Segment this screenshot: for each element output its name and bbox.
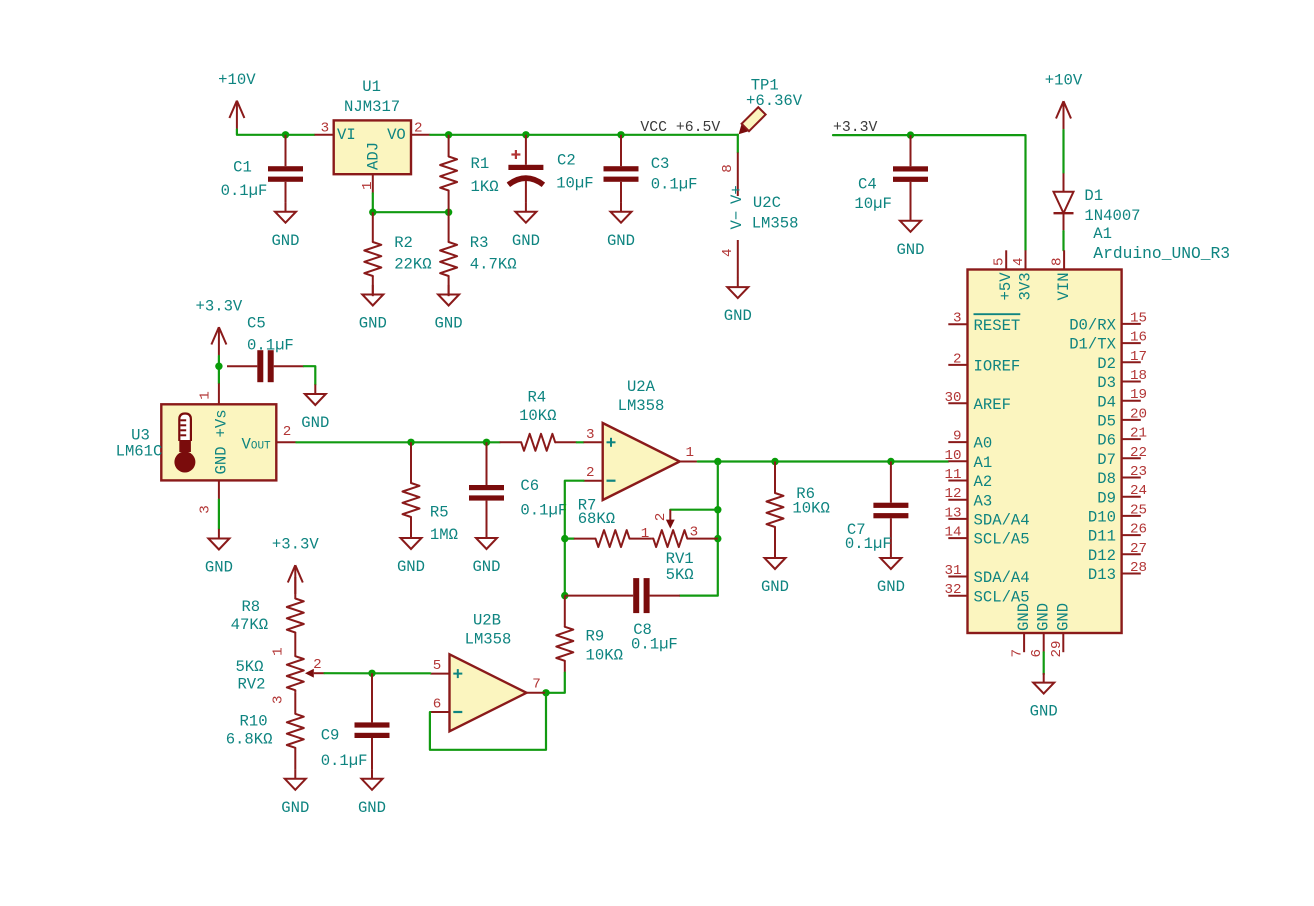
wire — [1043, 652, 1045, 674]
svg-text:D8: D8 — [1097, 470, 1116, 488]
svg-text:1N4007: 1N4007 — [1084, 207, 1140, 225]
wire — [680, 462, 718, 596]
svg-text:R5: R5 — [430, 504, 449, 522]
wire — [373, 211, 449, 213]
ground — [896, 211, 924, 259]
svg-text:7: 7 — [1010, 649, 1026, 658]
ground — [761, 548, 789, 596]
C7 labels — [845, 521, 892, 553]
ground — [271, 202, 299, 250]
svg-text:U2A: U2A — [627, 378, 656, 396]
svg-text:10: 10 — [944, 448, 961, 464]
svg-text:D13: D13 — [1088, 566, 1116, 584]
R8 labels — [231, 598, 268, 634]
svg-text:GND: GND — [724, 307, 752, 325]
svg-text:9: 9 — [953, 429, 962, 445]
svg-text:8: 8 — [720, 164, 736, 173]
svg-text:2: 2 — [953, 351, 962, 367]
junction — [714, 506, 721, 513]
net label VCC +6.5V — [640, 120, 720, 136]
svg-text:0.1µF: 0.1µF — [247, 337, 294, 355]
svg-text:22: 22 — [1130, 445, 1147, 461]
svg-text:RESET: RESET — [974, 317, 1021, 335]
svg-text:1: 1 — [271, 647, 287, 656]
op-amp U2C power pins — [720, 135, 746, 278]
U1 labels — [344, 78, 400, 116]
svg-text:GND: GND — [281, 799, 309, 817]
svg-text:AREF: AREF — [974, 396, 1011, 414]
svg-text:5: 5 — [433, 658, 442, 674]
diode D1 — [1054, 173, 1074, 231]
svg-text:2: 2 — [313, 657, 322, 673]
junction — [368, 670, 375, 677]
svg-text:+Vs: +Vs — [213, 409, 231, 437]
resistor R6 — [767, 462, 784, 549]
svg-text:SDA/A4: SDA/A4 — [974, 569, 1030, 587]
junction — [907, 131, 914, 138]
svg-text:R2: R2 — [394, 234, 413, 252]
resistor R8 — [287, 577, 304, 654]
power +10V — [218, 71, 256, 130]
svg-text:C4: C4 — [858, 176, 877, 194]
wire — [565, 537, 574, 539]
svg-text:D0/RX: D0/RX — [1069, 317, 1116, 335]
A1 labels — [1093, 225, 1230, 263]
svg-text:A0: A0 — [974, 435, 993, 453]
svg-text:20: 20 — [1130, 406, 1147, 422]
ground — [359, 285, 387, 333]
svg-text:LM358: LM358 — [752, 214, 799, 232]
svg-text:1KΩ: 1KΩ — [471, 178, 499, 196]
capacitor C4 — [893, 135, 928, 212]
svg-text:3: 3 — [690, 525, 699, 541]
RV1 labels — [666, 550, 694, 584]
resistor R4 — [500, 434, 577, 451]
test point TP1 — [735, 107, 766, 138]
svg-text:+3.3V: +3.3V — [833, 120, 878, 136]
svg-text:C9: C9 — [321, 726, 340, 744]
svg-text:GND: GND — [271, 232, 299, 250]
svg-text:+5V: +5V — [997, 272, 1015, 301]
svg-text:V−: V− — [728, 211, 746, 230]
svg-text:10KΩ: 10KΩ — [586, 646, 623, 664]
op-amp U2B — [430, 654, 545, 731]
junction — [369, 209, 376, 216]
svg-text:V+: V+ — [728, 185, 746, 204]
svg-text:29: 29 — [1049, 640, 1065, 657]
svg-text:GND: GND — [358, 799, 386, 817]
R6 labels — [792, 485, 829, 518]
svg-text:+10V: +10V — [1045, 72, 1083, 90]
regulator U1 NJM317 — [315, 120, 431, 193]
svg-text:19: 19 — [1130, 387, 1147, 403]
junction — [617, 131, 624, 138]
R1 labels — [471, 155, 499, 196]
ground — [358, 769, 386, 817]
svg-text:GND: GND — [301, 414, 329, 432]
wire — [670, 509, 718, 511]
svg-text:3: 3 — [198, 505, 214, 514]
svg-text:+3.3V: +3.3V — [196, 298, 243, 316]
junction — [445, 209, 452, 216]
svg-text:GND: GND — [512, 232, 540, 250]
sensor U3 LM61C — [161, 383, 296, 513]
wire — [218, 356, 220, 383]
svg-text:1: 1 — [641, 526, 650, 542]
svg-text:R1: R1 — [471, 155, 490, 173]
svg-text:7: 7 — [532, 676, 541, 692]
svg-text:+3.3V: +3.3V — [272, 536, 319, 554]
svg-text:12: 12 — [944, 486, 961, 502]
C3 labels — [651, 155, 698, 193]
junction — [561, 535, 568, 542]
wire — [218, 500, 220, 529]
svg-text:10µF: 10µF — [854, 195, 891, 213]
svg-text:8: 8 — [1050, 257, 1066, 266]
wire — [430, 134, 738, 136]
svg-text:10KΩ: 10KΩ — [792, 500, 829, 518]
svg-text:D12: D12 — [1088, 547, 1116, 565]
junction — [483, 439, 490, 446]
svg-text:+6.36V: +6.36V — [746, 92, 803, 110]
svg-text:GND: GND — [397, 558, 425, 576]
resistor R1 — [440, 135, 457, 212]
wire — [546, 673, 565, 693]
wire — [325, 672, 373, 674]
svg-text:16: 16 — [1130, 330, 1147, 346]
wire — [1062, 130, 1064, 173]
wire — [372, 193, 374, 212]
wire — [698, 460, 949, 462]
U2B labels — [465, 612, 512, 649]
svg-text:D7: D7 — [1097, 451, 1116, 469]
svg-text:D2: D2 — [1097, 355, 1116, 373]
power +3.3V — [272, 536, 319, 595]
svg-text:4: 4 — [720, 248, 736, 257]
resistor R7 — [574, 530, 651, 547]
wire — [372, 672, 430, 674]
resistor R2 — [364, 212, 381, 296]
svg-text:GND: GND — [213, 446, 231, 474]
svg-text:VI: VI — [337, 126, 356, 144]
svg-text:GND: GND — [359, 315, 387, 333]
U2A labels — [618, 378, 665, 415]
svg-text:GND: GND — [1030, 703, 1058, 721]
TP1 labels — [746, 77, 803, 111]
D1 labels — [1084, 187, 1140, 225]
resistor R5 — [403, 442, 420, 528]
svg-text:0.1µF: 0.1µF — [845, 535, 892, 553]
svg-text:VIN: VIN — [1055, 272, 1073, 300]
svg-text:GND: GND — [761, 578, 789, 596]
svg-text:Arduino_UNO_R3: Arduino_UNO_R3 — [1093, 244, 1230, 263]
wire — [296, 441, 499, 443]
U3 labels — [116, 426, 163, 460]
svg-text:31: 31 — [944, 563, 961, 579]
C9 labels — [321, 726, 368, 770]
svg-text:2: 2 — [283, 424, 292, 440]
svg-text:GND: GND — [896, 241, 924, 259]
svg-text:5KΩ: 5KΩ — [666, 566, 694, 584]
svg-text:GND: GND — [607, 232, 635, 250]
capacitor C7 — [873, 462, 908, 549]
svg-text:1: 1 — [360, 181, 376, 190]
wire — [833, 135, 1026, 250]
svg-text:IOREF: IOREF — [974, 358, 1021, 376]
junction — [887, 458, 894, 465]
svg-text:VCC +6.5V: VCC +6.5V — [640, 120, 720, 136]
svg-text:17: 17 — [1130, 349, 1147, 365]
svg-text:SDA/A4: SDA/A4 — [974, 512, 1030, 530]
U3 thermometer icon — [174, 414, 195, 473]
svg-text:C5: C5 — [247, 315, 266, 333]
C6 labels — [520, 477, 567, 520]
svg-text:R4: R4 — [527, 389, 546, 407]
ground — [472, 528, 500, 576]
ground — [397, 528, 425, 576]
ground — [1030, 673, 1058, 721]
junction — [445, 131, 452, 138]
capacitor C6 — [469, 442, 504, 528]
svg-text:+10V: +10V — [218, 71, 256, 89]
svg-text:10KΩ: 10KΩ — [519, 407, 556, 425]
svg-text:A2: A2 — [974, 473, 993, 491]
svg-text:28: 28 — [1130, 560, 1147, 576]
wire — [565, 481, 584, 596]
resistor R3 — [440, 212, 457, 296]
svg-text:D1: D1 — [1084, 187, 1103, 205]
svg-text:GND: GND — [205, 559, 233, 577]
svg-text:0.1µF: 0.1µF — [520, 502, 567, 520]
svg-text:11: 11 — [944, 467, 961, 483]
svg-text:A1: A1 — [1093, 225, 1112, 243]
junction — [522, 131, 529, 138]
junction — [561, 592, 568, 599]
junction — [714, 535, 721, 542]
R4 labels — [519, 389, 556, 426]
svg-text:13: 13 — [944, 505, 961, 521]
capacitor C3 — [604, 135, 639, 202]
svg-text:26: 26 — [1130, 522, 1147, 538]
ground — [435, 285, 463, 333]
svg-text:24: 24 — [1130, 483, 1147, 499]
RV2 labels — [235, 658, 265, 694]
svg-text:D11: D11 — [1088, 528, 1116, 546]
svg-text:21: 21 — [1130, 426, 1147, 442]
svg-text:D5: D5 — [1097, 413, 1116, 431]
svg-text:ADJ: ADJ — [365, 142, 383, 170]
svg-text:6.8KΩ: 6.8KΩ — [226, 730, 273, 748]
svg-text:GND: GND — [1035, 603, 1053, 631]
svg-text:6: 6 — [433, 697, 442, 713]
junction — [771, 458, 778, 465]
ground — [877, 548, 905, 596]
svg-text:GND: GND — [1054, 603, 1072, 631]
svg-text:C3: C3 — [651, 155, 670, 173]
svg-text:D3: D3 — [1097, 374, 1116, 392]
svg-text:GND: GND — [435, 315, 463, 333]
svg-text:68KΩ: 68KΩ — [578, 510, 615, 528]
ground — [724, 278, 752, 326]
junction — [542, 689, 549, 696]
potentiometer RV1 — [641, 510, 718, 547]
svg-text:0.1µF: 0.1µF — [631, 635, 678, 653]
svg-text:23: 23 — [1130, 464, 1147, 480]
junction — [282, 131, 289, 138]
svg-text:2: 2 — [414, 121, 423, 137]
C8 labels — [631, 621, 678, 653]
ground — [512, 202, 540, 250]
svg-text:2: 2 — [586, 465, 595, 481]
svg-text:4.7KΩ: 4.7KΩ — [470, 256, 517, 274]
svg-text:R3: R3 — [470, 234, 489, 252]
ground — [281, 769, 309, 817]
svg-text:GND: GND — [1015, 603, 1033, 631]
svg-text:R8: R8 — [241, 598, 260, 616]
wire — [577, 441, 584, 443]
svg-text:3: 3 — [321, 121, 330, 137]
svg-text:5: 5 — [992, 257, 1008, 266]
wire — [237, 130, 315, 135]
svg-text:U2B: U2B — [473, 612, 501, 630]
svg-text:32: 32 — [944, 582, 961, 598]
junction — [407, 439, 414, 446]
svg-text:R9: R9 — [586, 628, 605, 646]
svg-text:2: 2 — [653, 513, 669, 522]
svg-text:10µF: 10µF — [556, 175, 593, 193]
R7 labels — [578, 497, 615, 528]
resistor R10 — [287, 692, 304, 769]
svg-text:47KΩ: 47KΩ — [231, 616, 268, 634]
capacitor C8 — [565, 578, 680, 613]
svg-text:1: 1 — [198, 391, 214, 400]
capacitor C2 (polarized) — [508, 135, 543, 202]
wire — [304, 366, 315, 384]
svg-text:D6: D6 — [1097, 432, 1116, 450]
svg-text:0.1µF: 0.1µF — [321, 752, 368, 770]
svg-text:U3: U3 — [131, 426, 150, 444]
R3 labels — [470, 234, 517, 274]
svg-text:27: 27 — [1130, 541, 1147, 557]
R9 labels — [586, 628, 623, 665]
power +10V — [1045, 72, 1083, 131]
svg-text:C2: C2 — [557, 152, 576, 170]
wire — [1062, 231, 1064, 250]
svg-text:RV2: RV2 — [237, 675, 265, 693]
ground — [205, 529, 233, 577]
svg-text:GND: GND — [472, 558, 500, 576]
svg-text:U2C: U2C — [753, 194, 781, 212]
wire feedback — [430, 693, 546, 750]
svg-text:30: 30 — [944, 390, 961, 406]
junction — [215, 363, 222, 370]
svg-text:D9: D9 — [1097, 489, 1116, 507]
C1 value labels — [221, 159, 268, 201]
svg-text:3: 3 — [271, 695, 287, 704]
power +3.3V — [196, 298, 243, 357]
op-amp U2A — [584, 423, 699, 500]
svg-text:R10: R10 — [240, 713, 268, 731]
IC A1 Arduino_UNO_R3 — [944, 250, 1147, 657]
svg-text:0.1µF: 0.1µF — [651, 175, 698, 193]
C2 labels — [556, 152, 593, 193]
svg-text:0.1µF: 0.1µF — [221, 182, 268, 200]
svg-text:25: 25 — [1130, 502, 1147, 518]
svg-text:GND: GND — [877, 578, 905, 596]
svg-text:LM61C: LM61C — [116, 443, 163, 461]
R10 labels — [226, 713, 273, 749]
R5 labels — [430, 504, 458, 545]
U2C labels — [752, 194, 799, 232]
svg-text:SCL/A5: SCL/A5 — [974, 531, 1030, 549]
svg-text:22KΩ: 22KΩ — [394, 256, 431, 274]
ground — [301, 384, 329, 432]
net label +3.3V — [833, 120, 878, 136]
svg-text:5KΩ: 5KΩ — [235, 658, 263, 676]
svg-text:C1: C1 — [233, 159, 252, 177]
svg-text:3V3: 3V3 — [1017, 272, 1035, 300]
svg-text:U1: U1 — [362, 78, 381, 96]
svg-text:14: 14 — [944, 525, 961, 541]
svg-text:4: 4 — [1011, 257, 1027, 266]
capacitor C5 — [227, 350, 304, 382]
potentiometer RV2 — [271, 647, 325, 704]
svg-text:D1/TX: D1/TX — [1069, 336, 1116, 354]
svg-text:D4: D4 — [1097, 393, 1116, 411]
R2 labels — [394, 234, 431, 274]
svg-text:VO: VO — [387, 126, 406, 144]
svg-text:15: 15 — [1130, 310, 1147, 326]
svg-text:18: 18 — [1130, 368, 1147, 384]
svg-text:C6: C6 — [520, 477, 539, 495]
svg-text:A3: A3 — [974, 492, 993, 510]
C5 labels — [247, 315, 294, 355]
svg-text:LM358: LM358 — [618, 397, 665, 415]
svg-text:A1: A1 — [974, 454, 993, 472]
svg-text:1: 1 — [685, 445, 694, 461]
capacitor C9 — [355, 673, 390, 769]
junction — [714, 458, 721, 465]
svg-text:1MΩ: 1MΩ — [430, 526, 458, 544]
svg-text:3: 3 — [953, 311, 962, 327]
C4 labels — [854, 176, 891, 214]
svg-text:3: 3 — [586, 427, 595, 443]
ground — [607, 202, 635, 250]
resistor R9 — [556, 596, 573, 673]
svg-text:LM358: LM358 — [465, 630, 512, 648]
svg-text:NJM317: NJM317 — [344, 98, 400, 116]
capacitor C1 — [268, 135, 303, 202]
svg-text:D10: D10 — [1088, 509, 1116, 527]
